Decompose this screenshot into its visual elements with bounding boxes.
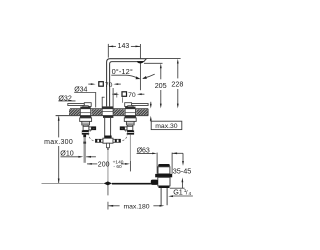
right below-deck valve [125,116,136,118]
extension stub E [122,97,124,103]
svg-text:35-45: 35-45 [173,166,192,175]
dimension max.180 [108,205,119,207]
tailpipe [161,188,167,205]
popup waste hole extension lines [156,153,158,174]
dimension 205 [144,63,163,104]
dimension 228 [147,59,181,105]
right handle post [128,106,133,107]
svg-text:143: 143 [118,43,130,50]
right handle lever [125,103,148,107]
extension C [112,88,114,116]
dashed hose curve left [89,128,96,141]
left below-deck valve [80,116,91,118]
waste band [159,186,170,188]
extension B [101,97,103,115]
left handle post [83,106,88,107]
right shank slot lines [125,109,135,116]
svg-text:205: 205 [155,81,167,90]
extension stub D [116,93,118,98]
center shank below deck [103,116,113,118]
spout column slot line [102,110,113,112]
dimension 143 [108,44,140,90]
svg-text:max.180: max.180 [123,204,149,211]
dimension 35-45 [170,153,185,188]
right stud thin [129,135,131,161]
right escutcheon [125,107,135,109]
waste lip [155,174,172,177]
left stud dia10 [83,135,86,138]
popup waste plug top [158,164,170,167]
dimension 200 +140/-60 [87,163,97,165]
extension A [95,93,97,108]
waste side knob [151,180,158,185]
dimension max.300 [58,116,60,137]
aerator [137,61,144,63]
deck with hatching [56,109,149,116]
left shank slot lines [80,109,90,116]
stem [107,143,110,148]
left escutcheon [80,107,90,109]
T body [103,138,113,143]
svg-text:G1: G1 [173,188,183,197]
label sq70 spout [88,83,121,85]
dashed hose curve right [120,128,127,141]
waste body [158,177,170,186]
svg-text:max.300: max.300 [44,139,73,146]
svg-text:max.30: max.30 [155,123,178,130]
right arm [113,139,121,142]
left arm [95,139,103,142]
dimension max.30 [151,102,182,130]
pull rod [107,150,109,183]
svg-text:70: 70 [105,82,113,89]
spout outline [107,59,147,107]
swivel arc right [143,74,155,78]
label sq70 handle [112,93,144,95]
swivel arc left with underline [111,75,139,79]
junction diamond [104,181,112,185]
linkage rod horizontal [42,182,104,184]
svg-text:0°-12°: 0°-12° [112,67,133,76]
left handle lever [68,103,91,107]
spout base plate [102,106,113,109]
svg-text:70: 70 [128,92,136,99]
svg-text:228: 228 [171,80,183,89]
waste collar [158,167,170,174]
svg-text:- 60: - 60 [113,164,122,170]
svg-text:200: 200 [98,162,110,169]
